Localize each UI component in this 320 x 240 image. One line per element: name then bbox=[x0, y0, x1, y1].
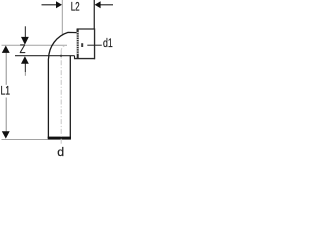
pipe bottom end face (thick) bbox=[48, 137, 71, 140]
pipe centerline (dash-dot) bbox=[60, 51, 62, 146]
elbow outer arc bbox=[49, 32, 78, 58]
dimension arrow L2 right bbox=[95, 1, 113, 8]
pipe right edge bbox=[69, 56, 71, 139]
axis extension line (horizontal, gray) bbox=[2, 44, 68, 46]
svg-text:L2: L2 bbox=[71, 0, 80, 14]
centerline dot on seam bbox=[60, 55, 62, 57]
socket bottom edge bbox=[74, 58, 95, 60]
leader d1 bbox=[87, 44, 102, 46]
Z bottom reference / seam line / tube bottom edge bbox=[15, 55, 75, 57]
dimension L1 (left vertical) bbox=[2, 46, 10, 139]
dimension Z bbox=[21, 26, 29, 76]
bottom extension line (gray) bbox=[2, 139, 48, 141]
extension line L2 right bbox=[93, 0, 95, 29]
extension line L2 left (gray) bbox=[61, 0, 63, 34]
axis mark inside socket bbox=[81, 43, 83, 47]
top step of socket shoulder bbox=[76, 29, 78, 33]
svg-text:L1: L1 bbox=[1, 84, 11, 98]
svg-text:d1: d1 bbox=[103, 36, 113, 50]
svg-text:Z: Z bbox=[20, 42, 26, 56]
pipe left edge bbox=[47, 59, 49, 139]
socket right edge bbox=[94, 28, 96, 59]
bottom step of socket shoulder bbox=[74, 56, 76, 59]
socket top edge bbox=[77, 28, 95, 30]
bend axis dash-dot bbox=[61, 45, 66, 51]
dimension arrow L2 left bbox=[42, 1, 63, 8]
socket mouth band (thick dark with rib breaks) bbox=[77, 29, 79, 58]
svg-text:d: d bbox=[57, 145, 64, 159]
